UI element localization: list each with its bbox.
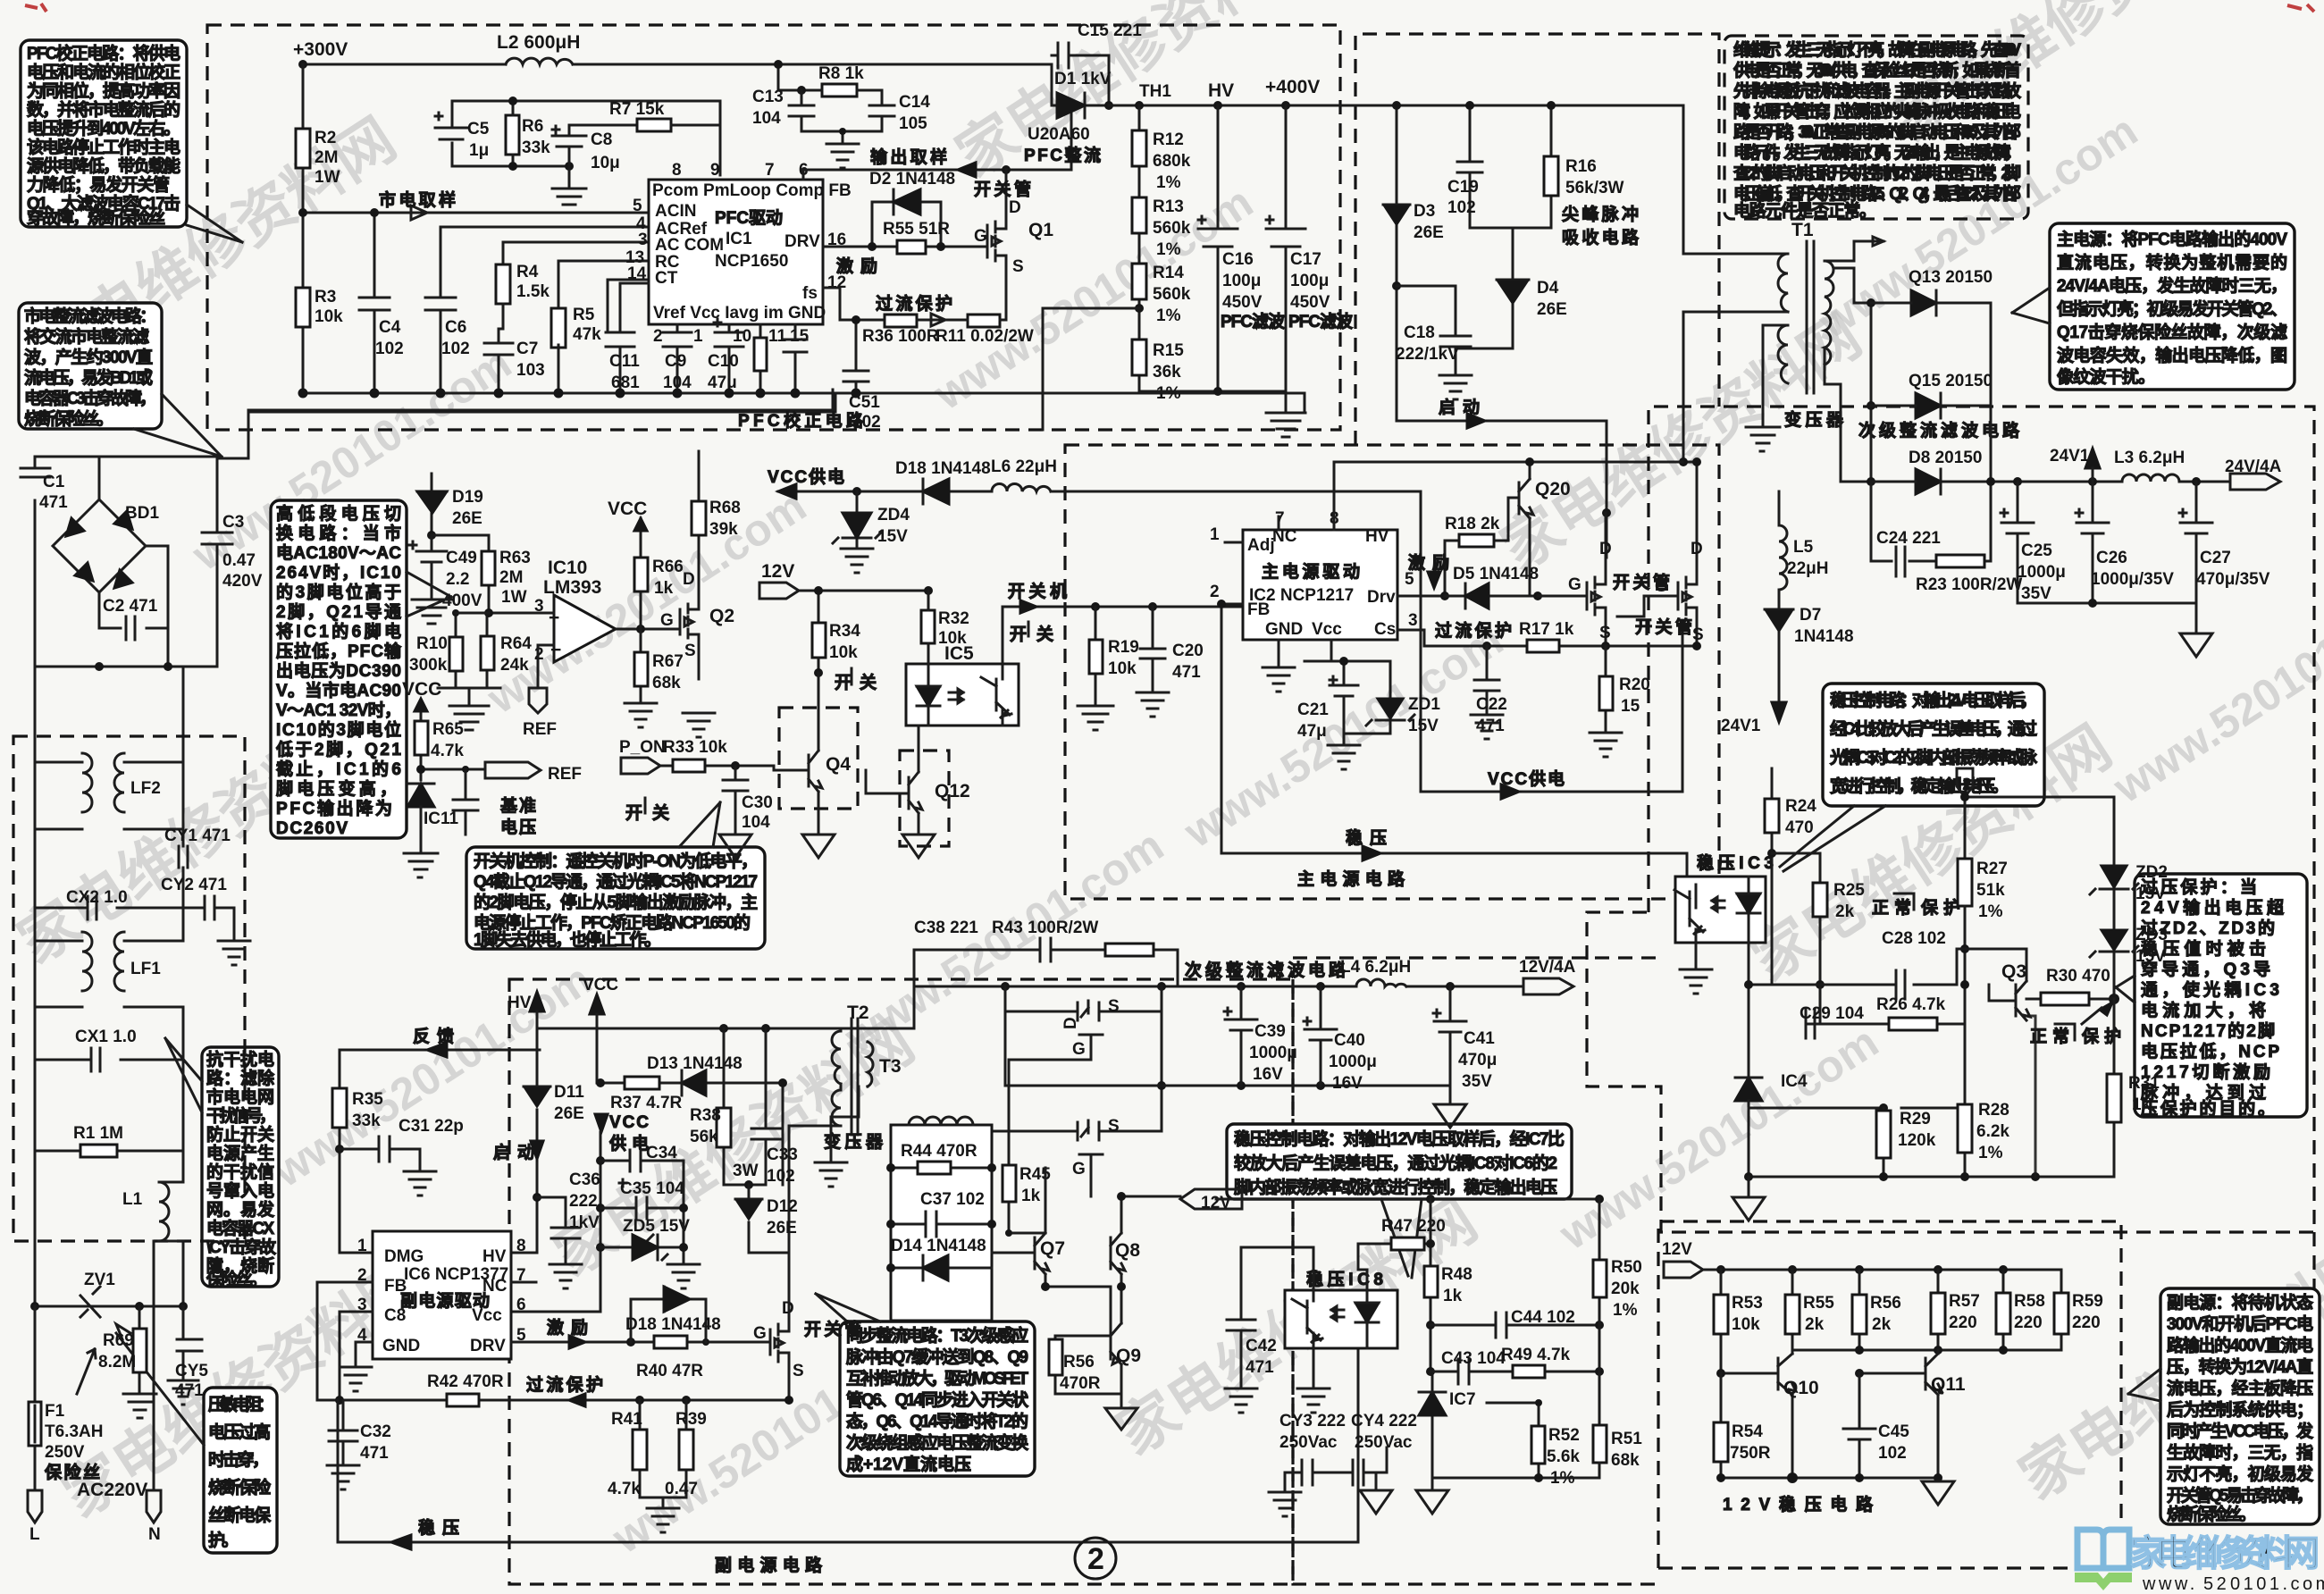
svg-text:供电是否正常，无300V供电，查保险丝F1是否烧断，如果烧断: 供电是否正常，无300V供电，查保险丝F1是否烧断，如果烧断首: [1733, 60, 2021, 80]
svg-text:1%: 1%: [1156, 240, 1181, 259]
svg-text:51k: 51k: [1976, 881, 2005, 900]
svg-text:互补推动放大，驱动MOSFET: 互补推动放大，驱动MOSFET: [846, 1368, 1028, 1388]
wire IC3 grounds: [1680, 943, 1712, 994]
svg-text:D12: D12: [767, 1197, 798, 1216]
svg-text:C35 104: C35 104: [620, 1179, 684, 1198]
transistor Q8: [1045, 1196, 1125, 1287]
svg-text:3: 3: [638, 231, 648, 249]
diode D3 branch: [1383, 105, 1410, 421]
capacitor C6: [425, 227, 456, 393]
svg-text:R31: R31: [2128, 1074, 2160, 1093]
svg-text:R53: R53: [1732, 1294, 1763, 1313]
svg-text:VCC: VCC: [583, 976, 618, 994]
svg-text:35V: 35V: [2021, 584, 2051, 603]
svg-text:电压过高: 电压过高: [208, 1422, 271, 1442]
wire FB column: [317, 1282, 536, 1400]
svg-text:IC10: IC10: [548, 558, 587, 578]
svg-text:LF2: LF2: [130, 779, 161, 798]
svg-text:5.6k: 5.6k: [1547, 1447, 1580, 1466]
mosfet Q5: [770, 1320, 789, 1400]
svg-text:12V: 12V: [1662, 1240, 1692, 1259]
connector N: [147, 1241, 161, 1523]
svg-text:Q1: Q1: [1028, 220, 1053, 240]
main power dashed border lower: [1065, 445, 1719, 899]
svg-text:号窜入电: 号窜入电: [206, 1180, 274, 1201]
svg-text:471: 471: [1476, 717, 1505, 735]
ground under C8: [552, 166, 586, 213]
svg-text:D4: D4: [1537, 279, 1559, 298]
svg-text:Q12: Q12: [935, 781, 970, 801]
capacitor C34: [600, 1150, 684, 1187]
svg-text:R42 470R: R42 470R: [427, 1372, 504, 1391]
svg-text:D18 1N4148: D18 1N4148: [625, 1315, 721, 1334]
resistor R35: [332, 1088, 347, 1128]
label VCC supply mid: [595, 1114, 608, 1132]
diode Q13: [1911, 290, 1936, 315]
svg-text:3W: 3W: [733, 1162, 759, 1180]
op IC6 box: [373, 1231, 511, 1359]
svg-text:C33: C33: [767, 1145, 798, 1164]
svg-text:R38: R38: [690, 1106, 721, 1125]
resistor R52: [1487, 1403, 1539, 1478]
svg-text:D: D: [1691, 540, 1703, 558]
wire RC: [558, 261, 649, 308]
svg-text:15: 15: [790, 327, 810, 346]
svg-text:R5: R5: [573, 306, 595, 324]
svg-text:D5 1N4148: D5 1N4148: [1453, 565, 1539, 583]
svg-text:26E: 26E: [1537, 300, 1567, 319]
svg-text:C30: C30: [742, 793, 773, 812]
svg-text:470μ: 470μ: [1458, 1051, 1497, 1070]
svg-text:0.47: 0.47: [222, 551, 256, 570]
capacitor C45: [1843, 1373, 1875, 1478]
svg-text:26E: 26E: [452, 509, 482, 528]
note: high/low voltage switch description: [271, 500, 407, 838]
connector L: [28, 1475, 42, 1523]
svg-text:的干扰信: 的干扰信: [206, 1162, 274, 1182]
svg-text:33k: 33k: [522, 138, 550, 157]
resistor R10: [455, 613, 457, 688]
svg-text:ZD5 15V: ZD5 15V: [623, 1217, 690, 1236]
svg-text:680k: 680k: [1153, 152, 1191, 171]
inductor L3: [2122, 474, 2179, 482]
mosfet switch 1: [1538, 513, 1606, 646]
svg-text:1%: 1%: [1156, 306, 1181, 325]
svg-text:出电压为DC390: 出电压为DC390: [276, 660, 401, 681]
svg-text:222: 222: [569, 1192, 598, 1211]
diode D13: [682, 1070, 706, 1095]
svg-text:Q2: Q2: [709, 606, 734, 626]
svg-text:Adj: Adj: [1247, 536, 1275, 555]
svg-text:电源停止工作，PFC矫正电路NCP1650的: 电源停止工作，PFC矫正电路NCP1650的: [474, 912, 751, 933]
svg-text:查IC2的8脚启动电压和开关机控制的IC2的2脚电压是否正常: 查IC2的8脚启动电压和开关机控制的IC2的2脚电压是否正常，2脚: [1733, 163, 2021, 183]
svg-text:C13: C13: [752, 88, 784, 106]
svg-text:压，转换为12V/4A直: 压，转换为12V/4A直: [2167, 1356, 2313, 1377]
svg-text:NCP1650: NCP1650: [715, 252, 788, 271]
resistor R33: [673, 759, 705, 772]
svg-text:障，如果开关管击穿，应检测相应的尖峰脉冲吸收电路和稳压电: 障，如果开关管击穿，应检测相应的尖峰脉冲吸收电路和稳压电: [1733, 101, 2021, 122]
resistor R4: [496, 264, 510, 304]
resistor R18: [1445, 498, 1519, 596]
resistor R37: [625, 1077, 659, 1089]
capacitor C8: [552, 125, 637, 166]
svg-text:副电源电路: 副电源电路: [715, 1555, 823, 1575]
resistor R44: [891, 1167, 992, 1170]
svg-text:该电路停止工作时主电: 该电路停止工作时主电: [27, 137, 180, 157]
svg-text:R52: R52: [1548, 1426, 1580, 1445]
svg-text:C40: C40: [1334, 1031, 1365, 1050]
svg-text:R29: R29: [1900, 1110, 1931, 1128]
svg-text:DC260V: DC260V: [276, 819, 348, 838]
svg-text:C36: C36: [569, 1170, 600, 1189]
wire 24V output rail: [1991, 303, 2230, 561]
svg-text:C29 104: C29 104: [1800, 1004, 1864, 1023]
svg-text:R49 4.7k: R49 4.7k: [1501, 1346, 1571, 1364]
svg-text:264V时，IC10: 264V时，IC10: [276, 563, 401, 583]
svg-text:\CY击穿故: \CY击穿故: [206, 1237, 277, 1257]
svg-text:防止开关: 防止开关: [206, 1124, 274, 1145]
svg-text:NC: NC: [1272, 527, 1297, 546]
svg-text:2M: 2M: [315, 148, 338, 167]
resistor R32: [921, 610, 935, 643]
svg-text:R50: R50: [1611, 1258, 1642, 1277]
capacitor C41: [1433, 986, 1466, 1086]
svg-text:1000μ: 1000μ: [2018, 563, 2066, 582]
svg-text:R25: R25: [1833, 881, 1865, 900]
svg-text:C6: C6: [445, 318, 466, 337]
svg-text:470: 470: [1785, 818, 1814, 837]
svg-text:Q8: Q8: [1115, 1240, 1140, 1261]
svg-text:24k: 24k: [500, 656, 529, 675]
svg-text:R36 100R: R36 100R: [862, 327, 939, 346]
svg-text:CY4 222: CY4 222: [1351, 1412, 1417, 1430]
svg-text:L1: L1: [122, 1190, 143, 1209]
svg-text:T3: T3: [879, 1056, 902, 1077]
inductor L5: [1779, 491, 1787, 609]
resistor R27: [1958, 859, 1972, 906]
resistor R50: [1598, 1199, 1601, 1425]
svg-text:较放大后产生误差电压，通过光耦IC8对IC6的2: 较放大后产生误差电压，通过光耦IC8对IC6的2: [1234, 1153, 1557, 1173]
IC8 left ground: [1297, 1348, 1330, 1413]
capacitor C4: [359, 213, 390, 393]
wire 400V to T1: [1683, 105, 1788, 462]
svg-text:250Vac: 250Vac: [1279, 1433, 1338, 1452]
wire FB to regulation: [1221, 604, 1687, 877]
svg-text:电压和电流的相位校正: 电压和电流的相位校正: [27, 62, 180, 82]
capacitor C35: [600, 1197, 684, 1219]
svg-text:33k: 33k: [352, 1112, 381, 1130]
capacitor C26: [2076, 482, 2109, 603]
wire opamp out: [616, 628, 680, 631]
resistor R11: [968, 315, 1000, 327]
svg-text:+300V: +300V: [293, 39, 348, 60]
red scan marks: [25, 4, 46, 12]
svg-text:C8: C8: [591, 130, 612, 149]
svg-text:C16: C16: [1222, 250, 1254, 269]
svg-text:数，并将市电整流后的: 数，并将市电整流后的: [27, 99, 180, 120]
svg-text:经IC4比较放大后产生误差电压，通过: 经IC4比较放大后产生误差电压，通过: [1830, 718, 2037, 739]
svg-text:C37 102: C37 102: [920, 1190, 985, 1209]
capacitor C18: [1397, 286, 1471, 375]
svg-text:220: 220: [2072, 1313, 2101, 1332]
capacitor C19: [1457, 105, 1482, 228]
capacitor C30: [731, 761, 740, 770]
svg-text:450V: 450V: [1222, 293, 1263, 312]
svg-text:35V: 35V: [1462, 1072, 1492, 1091]
svg-text:10μ: 10μ: [591, 154, 620, 172]
ground triangle: [1733, 1177, 1765, 1221]
wire IC7 column: [1431, 1372, 1434, 1478]
svg-text:10k: 10k: [315, 307, 343, 326]
svg-text:222/1kV: 222/1kV: [1396, 345, 1459, 364]
svg-text:像纹波干扰。: 像纹波干扰。: [2057, 366, 2155, 387]
svg-text:REF: REF: [548, 765, 582, 784]
diode D5: [1445, 583, 1538, 608]
svg-text:10k: 10k: [829, 643, 858, 662]
svg-text:24V: 24V: [1962, 776, 1993, 794]
ground under C13/C14: [826, 131, 859, 168]
svg-text:S: S: [1692, 625, 1704, 644]
svg-text:路是否开路；300V正常查副电源IC6的8脚启动电压和IC6: 路是否开路；300V正常查副电源IC6的8脚启动电压和IC6及其外部: [1733, 122, 2021, 142]
capacitor C33: [724, 1028, 780, 1185]
svg-text:烧断保险丝。: 烧断保险丝。: [24, 408, 113, 429]
svg-text:R1 1M: R1 1M: [73, 1124, 123, 1143]
svg-text:R57: R57: [1949, 1292, 1980, 1311]
svg-text:HV: HV: [1365, 527, 1389, 546]
diode D18: [923, 479, 949, 504]
svg-text:R56: R56: [1870, 1294, 1901, 1313]
svg-text:104: 104: [752, 109, 781, 128]
svg-text:C21: C21: [1297, 701, 1329, 719]
wire bottom row: [1749, 1176, 2114, 1179]
svg-text:IC4: IC4: [1781, 1072, 1808, 1091]
svg-text:1W: 1W: [501, 588, 527, 607]
svg-text:R13: R13: [1153, 197, 1184, 216]
wire REF row: [421, 769, 485, 780]
note: sync rectifier description: [840, 1321, 1035, 1476]
svg-text:IC7: IC7: [1449, 1390, 1476, 1409]
svg-text:网。易发: 网。易发: [206, 1199, 275, 1220]
svg-text:VCC: VCC: [609, 1113, 649, 1132]
svg-text:471: 471: [1246, 1358, 1274, 1377]
svg-text:Q4: Q4: [826, 754, 851, 775]
svg-text:D: D: [683, 570, 695, 589]
zener ZD4: [852, 487, 861, 496]
resistor R7: [637, 119, 671, 131]
wire 12V reg top rail: [1703, 1269, 2061, 1271]
svg-text:电容器C3击穿故障，: 电容器C3击穿故障，: [24, 388, 156, 408]
resistor R53: [1720, 1270, 1723, 1373]
capacitor C17: [1266, 105, 1305, 391]
svg-text:56k: 56k: [690, 1128, 718, 1146]
resistor R2: [296, 129, 310, 168]
svg-text:102: 102: [1878, 1444, 1907, 1463]
svg-text:fs: fs: [802, 284, 818, 303]
svg-text:420V: 420V: [222, 572, 263, 591]
svg-text:102: 102: [375, 340, 404, 358]
wire 12V rect bottom rail: [1005, 1085, 1450, 1087]
svg-text:R65: R65: [432, 720, 464, 739]
svg-text:R18 2k: R18 2k: [1445, 515, 1500, 533]
svg-text:压拉低，PFC输: 压拉低，PFC输: [276, 641, 402, 661]
wire +300V top rail: [303, 63, 1052, 66]
diode D7: [1765, 609, 1793, 702]
svg-text:8: 8: [672, 161, 682, 180]
svg-text:6.2k: 6.2k: [1976, 1122, 2009, 1141]
svg-text:但指示灯亮；初级易发开关管Q2、: 但指示灯亮；初级易发开关管Q2、: [2057, 298, 2287, 319]
svg-text:R8 1k: R8 1k: [818, 64, 864, 83]
svg-text:电容器CX: 电容器CX: [206, 1218, 274, 1238]
svg-text:105: 105: [899, 114, 927, 133]
resistor R67: [640, 629, 642, 703]
svg-text:22μH: 22μH: [1787, 559, 1828, 578]
capacitor C44: [1430, 1313, 1599, 1338]
svg-text:成+12V直流电压: 成+12V直流电压: [846, 1454, 971, 1474]
svg-text:10k: 10k: [1108, 659, 1137, 678]
svg-text:C1: C1: [43, 473, 65, 491]
svg-text:C7: C7: [516, 340, 538, 358]
svg-text:15V: 15V: [2135, 947, 2166, 966]
svg-text:R23 100R/2W: R23 100R/2W: [1916, 575, 2022, 594]
svg-text:R55 51R: R55 51R: [883, 220, 950, 239]
bridge rectifier BD1: [53, 499, 146, 592]
svg-text:Vcc: Vcc: [1312, 620, 1342, 639]
varistor ZV1: [35, 1287, 183, 1317]
svg-text:C9: C9: [665, 352, 686, 371]
resistor R25: [1772, 853, 1820, 985]
svg-text:15: 15: [1621, 697, 1640, 716]
resistor R16: [1470, 105, 1551, 280]
svg-text:C5: C5: [467, 120, 490, 138]
svg-text:C25: C25: [2021, 541, 2052, 560]
svg-text:1k: 1k: [1443, 1287, 1463, 1305]
svg-text:GND: GND: [382, 1337, 420, 1355]
svg-text:471: 471: [39, 493, 68, 512]
note: anti-interference description: [202, 1047, 279, 1287]
ground triangles standby: [1416, 1478, 1448, 1514]
svg-text:R66: R66: [652, 558, 684, 576]
svg-text:波电容失效，输出电压降低，图: 波电容失效，输出电压降低，图: [2057, 345, 2287, 365]
svg-text:Q20: Q20: [1535, 479, 1571, 499]
svg-text:电源产生: 电源产生: [206, 1143, 274, 1163]
svg-text:C39: C39: [1254, 1022, 1286, 1041]
svg-text:C49: C49: [446, 549, 477, 567]
svg-text:U20A60: U20A60: [1028, 125, 1090, 144]
svg-text:S: S: [1012, 257, 1024, 276]
EMI dashed box: [13, 736, 245, 1241]
svg-text:次级绕组感应电压整流变换: 次级绕组感应电压整流变换: [846, 1432, 1029, 1453]
svg-text:Vref Vcc Iavg im GND: Vref Vcc Iavg im GND: [653, 304, 826, 323]
svg-text:14: 14: [627, 264, 647, 283]
SECTION: AC INPUT: [13, 390, 833, 1544]
svg-text:P_ON: P_ON: [619, 738, 666, 757]
svg-text:1%: 1%: [1156, 384, 1181, 403]
svg-text:68k: 68k: [652, 674, 681, 692]
capacitor C43 resistor R49: [1430, 1359, 1599, 1384]
diode Q15: [1916, 393, 1941, 418]
svg-text:+: +: [549, 608, 559, 628]
svg-text:R3: R3: [315, 288, 336, 306]
svg-text:波，产生约300V直: 波，产生约300V直: [24, 347, 153, 367]
resistor R1: [35, 1060, 183, 1151]
svg-text:抗干扰电: 抗干扰电: [206, 1049, 274, 1070]
wire standby top rail: [537, 1028, 841, 1030]
svg-text:变压器: 变压器: [1784, 409, 1844, 430]
svg-text:R58: R58: [2014, 1292, 2045, 1311]
svg-text:CY3 222: CY3 222: [1279, 1412, 1346, 1430]
svg-text:1%: 1%: [1978, 902, 2003, 921]
svg-text:S: S: [793, 1362, 804, 1380]
svg-text:R54: R54: [1732, 1422, 1763, 1441]
svg-text:G: G: [1072, 1040, 1086, 1059]
svg-text:R2: R2: [315, 129, 336, 147]
svg-text:D14 1N4148: D14 1N4148: [891, 1237, 986, 1255]
svg-text:C11: C11: [609, 352, 640, 371]
wire feedback line: [340, 1050, 540, 1253]
shunt IC11: [407, 784, 434, 807]
svg-text:36k: 36k: [1153, 363, 1181, 382]
svg-text:R12: R12: [1153, 130, 1184, 149]
svg-text:26E: 26E: [1414, 223, 1444, 242]
svg-text:Q17击穿烧保险丝故障，次级滤: Q17击穿烧保险丝故障，次级滤: [2057, 322, 2287, 342]
svg-text:1k: 1k: [654, 579, 674, 598]
capacitor C20: [1148, 602, 1157, 611]
svg-text:R6: R6: [522, 117, 543, 136]
svg-text:干扰信号，: 干扰信号，: [206, 1105, 276, 1126]
svg-text:C41: C41: [1464, 1029, 1495, 1048]
capacitor C49: [409, 535, 447, 600]
svg-text:PFC驱动: PFC驱动: [715, 208, 783, 228]
svg-text:R4: R4: [516, 263, 539, 281]
resistor R30: [2026, 998, 2114, 1001]
svg-text:变压器: 变压器: [824, 1131, 884, 1152]
svg-text:L5: L5: [1793, 538, 1814, 557]
svg-text:开: 开: [835, 674, 852, 692]
page number: [1075, 1538, 1116, 1579]
svg-text:示灯不亮，初级易发: 示灯不亮，初级易发: [2167, 1464, 2314, 1484]
label 24V1 down arrow: [1772, 702, 1786, 722]
resistor R55: [823, 246, 987, 248]
svg-text:R34: R34: [829, 622, 860, 641]
svg-text:PFC滤波: PFC滤波: [1221, 311, 1286, 331]
capacitor C42: [1227, 1247, 1313, 1388]
svg-text:将交流市电整流滤: 将交流市电整流滤: [24, 326, 149, 347]
transistor Q4: [779, 708, 858, 809]
svg-text:1: 1: [357, 1237, 367, 1255]
resistor R56b: [1858, 1270, 1861, 1350]
resistor R3: [296, 288, 310, 327]
svg-text:2M: 2M: [499, 568, 523, 587]
wire mid rail: [1792, 1349, 2061, 1352]
svg-text:C31 22p: C31 22p: [399, 1117, 464, 1136]
svg-text:12V/4A: 12V/4A: [1519, 958, 1576, 977]
svg-text:主电源驱动: 主电源驱动: [1262, 561, 1360, 582]
resistor R24: [1771, 768, 1774, 853]
capacitor C37: [891, 1212, 992, 1237]
mosfet sync2: [961, 986, 1162, 1196]
diode D19: [417, 474, 447, 535]
svg-text:5: 5: [633, 197, 642, 215]
svg-text:9: 9: [710, 161, 720, 180]
svg-text:HV: HV: [482, 1247, 507, 1266]
capacitor CY2: [183, 896, 234, 941]
svg-text:R7 15k: R7 15k: [609, 100, 665, 119]
svg-text:G: G: [753, 1324, 767, 1343]
svg-text:维修提示：发生三无指示灯不亮，故障在副电源电路，先查300V: 维修提示：发生三无指示灯不亮，故障在副电源电路，先查300V: [1733, 39, 2021, 60]
zener ZD5: [600, 1235, 684, 1260]
svg-text:R64: R64: [500, 634, 532, 653]
svg-text:1kV: 1kV: [569, 1213, 600, 1232]
